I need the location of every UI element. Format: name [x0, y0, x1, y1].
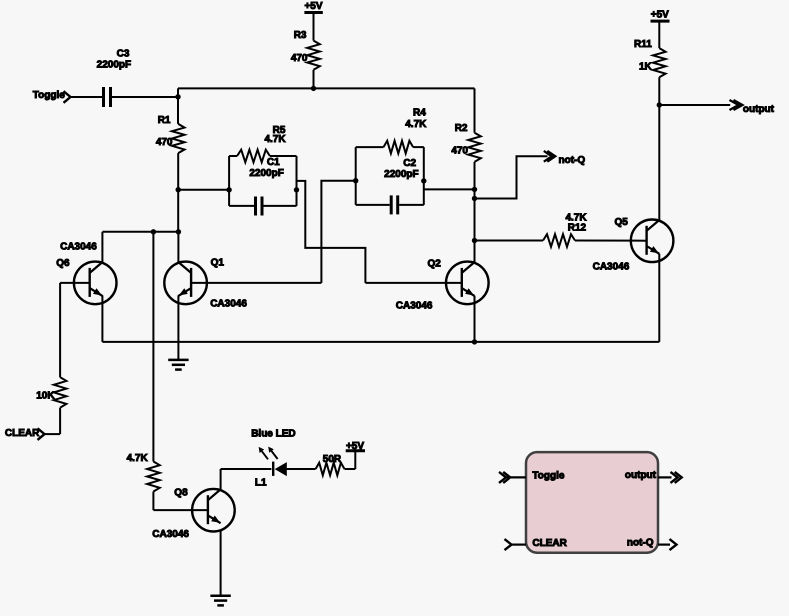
- svg-text:470: 470: [291, 53, 308, 64]
- svg-text:10K: 10K: [36, 391, 55, 402]
- svg-text:C1: C1: [267, 157, 280, 168]
- svg-text:R11: R11: [634, 39, 652, 50]
- svg-text:R3: R3: [294, 30, 307, 41]
- svg-text:CLEAR: CLEAR: [532, 538, 567, 549]
- svg-text:Toggle: Toggle: [532, 471, 564, 482]
- svg-text:L1: L1: [255, 478, 267, 489]
- svg-text:2200pF: 2200pF: [249, 168, 283, 179]
- svg-text:Q6: Q6: [56, 258, 70, 269]
- svg-text:not-Q: not-Q: [627, 538, 654, 549]
- svg-text:Toggle: Toggle: [33, 90, 65, 101]
- svg-text:Q1: Q1: [211, 258, 225, 269]
- svg-text:CLEAR: CLEAR: [5, 428, 40, 439]
- svg-text:2200pF: 2200pF: [97, 60, 131, 71]
- svg-text:+5V: +5V: [651, 9, 669, 20]
- svg-text:C2: C2: [403, 158, 416, 169]
- svg-text:CA3046: CA3046: [396, 300, 433, 311]
- svg-text:1K: 1K: [639, 62, 653, 73]
- svg-text:CA3046: CA3046: [210, 298, 247, 309]
- svg-text:output: output: [743, 104, 775, 115]
- svg-text:4.7K: 4.7K: [264, 134, 286, 145]
- svg-text:4.7K: 4.7K: [127, 453, 149, 464]
- svg-text:CA3046: CA3046: [593, 261, 630, 272]
- svg-text:470: 470: [156, 137, 173, 148]
- svg-text:Q5: Q5: [615, 217, 629, 228]
- svg-text:not-Q: not-Q: [559, 155, 586, 166]
- svg-text:C3: C3: [117, 48, 130, 59]
- svg-text:+5V: +5V: [304, 1, 322, 12]
- svg-text:Q2: Q2: [428, 259, 442, 270]
- svg-text:CA3046: CA3046: [60, 242, 97, 253]
- svg-text:50R: 50R: [323, 454, 342, 465]
- svg-text:Q8: Q8: [174, 488, 188, 499]
- svg-text:2200pF: 2200pF: [384, 169, 418, 180]
- svg-text:R1: R1: [158, 115, 171, 126]
- svg-text:470: 470: [451, 146, 468, 157]
- svg-text:CA3046: CA3046: [152, 529, 189, 540]
- svg-text:R2: R2: [455, 123, 468, 134]
- svg-text:4.7K: 4.7K: [405, 119, 427, 130]
- svg-text:+5V: +5V: [346, 441, 364, 452]
- svg-text:R4: R4: [413, 107, 426, 118]
- svg-text:Blue LED: Blue LED: [251, 428, 295, 439]
- svg-text:R12: R12: [568, 222, 587, 233]
- svg-text:output: output: [625, 470, 657, 481]
